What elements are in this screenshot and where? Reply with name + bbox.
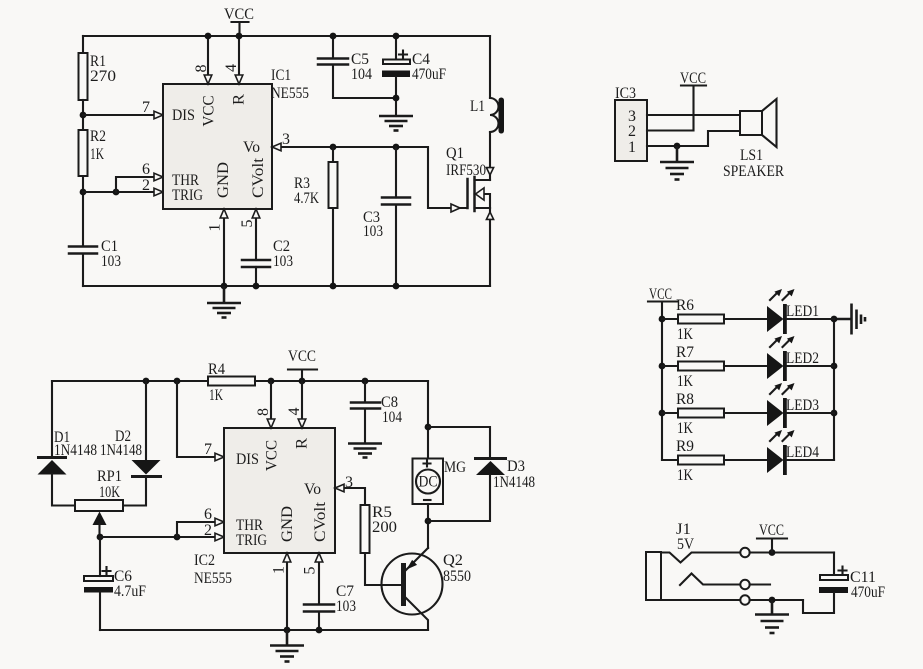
Q1 drain direction arrow bbox=[486, 168, 493, 175]
svg-text:6: 6 bbox=[142, 161, 150, 178]
wire VCC rail to L1 bbox=[489, 36, 491, 98]
wire C6 to bottom rail bbox=[99, 593, 101, 631]
svg-text:Q2: Q2 bbox=[443, 552, 463, 569]
LED4 emission arrow a bbox=[770, 430, 782, 441]
svg-text:TRIG: TRIG bbox=[172, 187, 203, 204]
pin arrow TRIG IC2 bbox=[215, 533, 224, 541]
diode LED2 triangle bbox=[767, 353, 784, 379]
motor MG circle bbox=[416, 470, 440, 494]
power symbol VCC top circuit bbox=[224, 6, 254, 36]
wire RP1 wiper stem bbox=[98, 524, 100, 537]
wire IC3 pin3 to speaker bbox=[647, 114, 740, 116]
svg-text:103: 103 bbox=[336, 598, 356, 615]
wire top node to D3 bbox=[428, 427, 490, 457]
pin arrow THR IC2 bbox=[215, 518, 224, 526]
svg-text:IC2: IC2 bbox=[194, 552, 215, 569]
pin arrow THR pin6 bbox=[154, 173, 163, 181]
wire wiper to TRIG run bbox=[100, 536, 223, 538]
svg-text:1K: 1K bbox=[90, 146, 105, 163]
svg-text:DIS: DIS bbox=[172, 107, 195, 124]
wire R9 to LED4 bbox=[724, 459, 767, 461]
junction C4 on rail bbox=[393, 33, 400, 40]
capacitor C4 bottom plate bbox=[382, 71, 410, 78]
capacitor C11 top plate bbox=[820, 575, 848, 580]
capacitor C2 bbox=[242, 260, 270, 267]
wire LED3 to right rail bbox=[787, 412, 834, 414]
svg-text:IRF530: IRF530 bbox=[446, 162, 486, 179]
junction node pin7 bbox=[80, 112, 87, 119]
power symbol VCC J1 bbox=[757, 522, 787, 552]
svg-text:R6: R6 bbox=[676, 297, 694, 314]
svg-text:IC3: IC3 bbox=[615, 85, 636, 102]
wire J1 tip contact bbox=[661, 553, 740, 563]
junction C7 ground rail bbox=[316, 627, 323, 634]
power symbol VCC bottom circuit bbox=[288, 348, 317, 381]
svg-text:R8: R8 bbox=[676, 391, 694, 408]
svg-text:4.7uF: 4.7uF bbox=[114, 583, 146, 600]
wire LED2 to right rail bbox=[787, 365, 834, 367]
wire LED1 to right rail bbox=[787, 318, 834, 320]
LED1 emission arrow a bbox=[770, 289, 782, 300]
svg-text:6: 6 bbox=[204, 506, 212, 523]
transistor Q2 emitter line bbox=[406, 548, 428, 570]
wire left rail to R1 bbox=[82, 36, 84, 53]
wire rail to R8 bbox=[662, 412, 678, 414]
junction LED row1 left bbox=[659, 316, 666, 323]
motor MG body bbox=[413, 459, 444, 505]
wire C5 stem bbox=[332, 36, 334, 58]
svg-text:5: 5 bbox=[302, 566, 319, 574]
wire pin 7 to DIS bbox=[83, 114, 162, 116]
connector IC3 box bbox=[615, 100, 647, 161]
transistor Q2 base bar bbox=[401, 563, 406, 606]
wire sleeve terminal to C11 return bbox=[750, 599, 803, 601]
svg-text:104: 104 bbox=[382, 409, 402, 426]
wire D1 to RP1 left bbox=[52, 474, 75, 506]
junction pin8 on rail bbox=[268, 378, 275, 385]
svg-text:VCC: VCC bbox=[201, 96, 218, 127]
wire R8 to LED3 bbox=[724, 412, 767, 414]
motor MG minus mark bbox=[424, 499, 431, 501]
wire pin 2 TRIG run bbox=[83, 191, 162, 193]
LED3 emission arrow b bbox=[783, 383, 795, 394]
svg-text:LED1: LED1 bbox=[786, 303, 819, 320]
wire C4 to ground bbox=[395, 77, 397, 116]
junction LED row1 right bbox=[831, 316, 838, 323]
IC2 NE555 box bbox=[224, 428, 335, 553]
diode LED1 triangle bbox=[767, 306, 784, 332]
pin arrow VCC pin8 bbox=[204, 75, 212, 84]
wire IC2 Vo to R5 bbox=[335, 488, 365, 505]
svg-text:VCC: VCC bbox=[224, 6, 254, 23]
wire D2 to RP1 right bbox=[123, 478, 146, 506]
wire IC3 pin2 to VCC bbox=[647, 86, 694, 131]
junction ground node J1 bbox=[769, 597, 776, 604]
capacitor C11 bottom plate bbox=[819, 587, 848, 593]
capacitor C4 top plate bbox=[383, 60, 410, 65]
svg-text:2: 2 bbox=[204, 522, 212, 539]
J1 tip terminal circle bbox=[740, 548, 749, 557]
wire tip terminal to C11 bbox=[750, 551, 834, 553]
ground symbol IC3 bbox=[660, 146, 694, 180]
resistor R3 bbox=[329, 162, 338, 208]
svg-text:R7: R7 bbox=[676, 344, 694, 361]
diode LED4 cathode bar bbox=[783, 445, 787, 475]
wire C8 to ground bbox=[364, 409, 366, 443]
diode LED4 triangle bbox=[767, 447, 784, 473]
resistor R4 bbox=[208, 377, 255, 386]
wire rail to R7 bbox=[662, 365, 678, 367]
svg-text:VCC: VCC bbox=[759, 522, 784, 539]
inductor L1 core bar bbox=[499, 98, 505, 134]
wire bottom ground rail bbox=[83, 285, 490, 287]
capacitor C1 bbox=[69, 247, 97, 254]
wire rail corner down to motor node bbox=[427, 381, 429, 459]
svg-text:1: 1 bbox=[271, 566, 288, 574]
svg-text:DIS: DIS bbox=[236, 451, 259, 468]
svg-text:5: 5 bbox=[239, 219, 256, 227]
svg-text:R4: R4 bbox=[208, 361, 225, 378]
svg-text:CVolt: CVolt bbox=[250, 157, 267, 198]
junction DIS branch on rail bbox=[174, 378, 181, 385]
wire IC2 pin 1 stem bbox=[286, 554, 288, 630]
ground symbol under C8 bbox=[348, 444, 382, 458]
pin arrow DIS pin7 bbox=[154, 111, 163, 119]
J1 sleeve terminal circle bbox=[740, 595, 749, 604]
junction motor D3 bottom node bbox=[425, 518, 432, 525]
svg-text:1: 1 bbox=[628, 139, 636, 156]
svg-text:470uF: 470uF bbox=[851, 584, 885, 601]
resistor R5 bbox=[361, 505, 370, 553]
wire R1 to R2 bbox=[82, 100, 84, 130]
wire C2 to ground rail bbox=[255, 267, 257, 286]
svg-text:3: 3 bbox=[345, 474, 353, 491]
svg-text:4: 4 bbox=[223, 64, 240, 72]
junction THR branch bottom bbox=[174, 534, 181, 541]
ground symbol under IC1 bbox=[207, 286, 241, 318]
wire C7 to ground rail bbox=[318, 612, 320, 630]
svg-text:5V: 5V bbox=[677, 536, 695, 553]
svg-text:103: 103 bbox=[273, 253, 293, 270]
junction R3 on Vo net bbox=[330, 144, 337, 151]
resistor R1 bbox=[79, 53, 88, 100]
Q1 source direction arrow bbox=[486, 212, 493, 219]
svg-text:LS1: LS1 bbox=[740, 147, 763, 164]
wire LED right rail bbox=[833, 319, 835, 460]
svg-text:IC1: IC1 bbox=[271, 67, 291, 84]
transistor Q2 collector line bbox=[406, 598, 428, 630]
potentiometer RP1 body bbox=[75, 500, 123, 511]
svg-text:2: 2 bbox=[142, 177, 150, 194]
wire C5 to C4 bottom bbox=[333, 65, 396, 98]
svg-text:TRIG: TRIG bbox=[236, 532, 267, 549]
capacitor C6 bottom plate bbox=[84, 587, 113, 593]
pin arrow GND pin1 bbox=[220, 209, 228, 218]
pin arrow R IC2 pin4 bbox=[298, 419, 306, 428]
wire bottom circuit VCC rail left bbox=[52, 380, 208, 382]
speaker LS1 cone bbox=[762, 99, 777, 147]
diode LED1 cathode bar bbox=[783, 304, 787, 334]
resistor R9 bbox=[678, 456, 724, 465]
LED3 emission arrow a bbox=[770, 383, 782, 394]
svg-text:GND: GND bbox=[279, 506, 296, 542]
svg-text:7: 7 bbox=[142, 99, 150, 116]
pin arrow Vo pin3 bbox=[272, 143, 281, 151]
svg-text:VCC: VCC bbox=[264, 440, 281, 471]
svg-text:270: 270 bbox=[90, 68, 116, 85]
svg-text:DC: DC bbox=[419, 474, 438, 491]
wire LED4 to right rail bbox=[787, 459, 834, 461]
transistor Q1 body diode arrow bbox=[476, 188, 485, 200]
diode LED3 cathode bar bbox=[783, 398, 787, 428]
svg-text:10K: 10K bbox=[99, 484, 121, 501]
svg-text:LED3: LED3 bbox=[786, 397, 819, 414]
svg-text:8: 8 bbox=[193, 64, 210, 72]
junction C3 on Vo net bbox=[393, 144, 400, 151]
wire R3 top stem bbox=[332, 147, 334, 162]
wire R5 to Q2 base bbox=[365, 553, 401, 585]
junction left rail trig node bbox=[80, 189, 87, 196]
svg-text:1K: 1K bbox=[677, 326, 694, 343]
svg-text:104: 104 bbox=[351, 66, 372, 83]
junction C5 on rail bbox=[330, 33, 337, 40]
svg-text:7: 7 bbox=[204, 441, 212, 458]
wire top VCC rail bbox=[83, 35, 490, 37]
power symbol VCC led block bbox=[648, 286, 677, 303]
resistor R7 bbox=[678, 362, 724, 371]
wire IC3 pin1 run bbox=[647, 131, 740, 146]
svg-text:L1: L1 bbox=[470, 98, 485, 115]
junction IC3 pin1 ground node bbox=[674, 143, 681, 150]
transistor Q1 body stub bbox=[475, 194, 491, 208]
diode D2 cathode bar bbox=[131, 475, 162, 478]
speaker LS1 box bbox=[740, 111, 762, 135]
diode D3 cathode bar bbox=[474, 457, 507, 460]
wire DIS branch pin7 bbox=[177, 381, 223, 457]
wire C8 stem bbox=[364, 381, 366, 402]
wire switch terminal stub bbox=[750, 583, 770, 585]
svg-text:NE555: NE555 bbox=[194, 570, 232, 587]
transistor Q2 circle bbox=[382, 554, 443, 615]
svg-text:8: 8 bbox=[255, 408, 272, 416]
resistor R8 bbox=[678, 409, 724, 418]
wire C1 to ground rail bbox=[82, 254, 84, 286]
diode D1 triangle bbox=[38, 460, 67, 475]
svg-text:NE555: NE555 bbox=[271, 85, 309, 102]
transistor Q2 emitter arrow bbox=[407, 560, 418, 570]
wire pin 1 stem bbox=[223, 210, 225, 286]
pin arrow DIS IC2 bbox=[215, 453, 224, 461]
capacitor C7 bbox=[304, 605, 334, 612]
J1 switch terminal circle bbox=[740, 580, 749, 589]
junction C3 on ground rail bbox=[393, 283, 400, 290]
junction VCC node J1 bbox=[769, 549, 776, 556]
resistor R6 bbox=[678, 315, 724, 324]
svg-text:4: 4 bbox=[286, 407, 303, 415]
wire rail down to D1 bbox=[51, 381, 53, 456]
capacitor C11 plus sign bbox=[839, 567, 847, 575]
wire R6 to LED1 bbox=[724, 318, 767, 320]
junction LED row2 right bbox=[831, 363, 838, 370]
diode LED2 cathode bar bbox=[783, 351, 787, 381]
capacitor C6 top plate bbox=[84, 576, 113, 581]
wire C3 top stem bbox=[395, 147, 397, 198]
wire bottom circuit VCC rail right bbox=[255, 380, 428, 382]
wire J1 sleeve contact bbox=[661, 599, 740, 601]
svg-text:R2: R2 bbox=[90, 128, 106, 145]
wire Q1 source to ground rail bbox=[489, 208, 491, 286]
wire pin 4 stem bbox=[238, 36, 240, 83]
svg-text:1K: 1K bbox=[209, 387, 224, 404]
capacitor C6 plus sign bbox=[103, 567, 111, 575]
pin arrow GND IC2 pin1 bbox=[283, 553, 291, 562]
svg-text:CVolt: CVolt bbox=[312, 501, 329, 542]
wire LED left rail bbox=[661, 302, 663, 461]
svg-text:3: 3 bbox=[282, 131, 290, 148]
svg-text:MG: MG bbox=[444, 459, 466, 476]
junction pin8 on rail bbox=[205, 33, 212, 40]
capacitor C3 bbox=[382, 198, 410, 205]
svg-text:1K: 1K bbox=[677, 467, 694, 484]
transistor Q1 channel bar bbox=[473, 177, 476, 211]
capacitor C4 plus sign bbox=[399, 51, 407, 59]
transistor Q1 source stub bbox=[475, 207, 491, 209]
junction C8 on rail bbox=[362, 378, 369, 385]
pin arrow Q1 gate bbox=[451, 204, 460, 212]
svg-text:GND: GND bbox=[215, 162, 232, 198]
wire THR jog pin6 bbox=[177, 522, 223, 537]
diode D2 triangle bbox=[132, 460, 161, 475]
junction D2 on rail bbox=[143, 378, 150, 385]
junction pin1 on ground rail bbox=[221, 283, 228, 290]
LED1 emission arrow b bbox=[783, 289, 795, 300]
capacitor C8 bbox=[351, 403, 380, 409]
svg-text:1K: 1K bbox=[677, 373, 694, 390]
diode D3 triangle bbox=[476, 461, 505, 475]
diode LED3 triangle bbox=[767, 400, 784, 426]
svg-text:200: 200 bbox=[372, 519, 397, 536]
svg-text:Q1: Q1 bbox=[446, 145, 464, 162]
ground symbol J1 bbox=[755, 600, 789, 633]
transistor Q1 gate bar bbox=[466, 179, 469, 208]
wire C11 top stem bbox=[833, 553, 835, 576]
junction IC2 pin1 ground rail bbox=[284, 627, 291, 634]
ground symbol LED rail rotated bbox=[834, 304, 865, 335]
wire bottom circuit ground rail bbox=[100, 629, 428, 631]
junction pin4 VCC on rail bbox=[236, 33, 243, 40]
svg-text:1N4148: 1N4148 bbox=[54, 442, 97, 459]
wire R2 to C1 bbox=[82, 176, 84, 246]
svg-text:1K: 1K bbox=[677, 420, 694, 437]
wire C4 stem bbox=[395, 36, 397, 59]
power symbol VCC speaker bbox=[680, 70, 706, 87]
svg-text:1: 1 bbox=[207, 224, 224, 232]
wire R3 to ground rail bbox=[332, 208, 334, 286]
svg-text:R: R bbox=[231, 93, 248, 105]
wire IC2 pin 5 stem bbox=[318, 554, 320, 604]
IC1 NE555 box bbox=[163, 84, 272, 209]
pin arrow CVolt IC2 pin5 bbox=[315, 553, 323, 562]
svg-text:103: 103 bbox=[363, 223, 383, 240]
motor MG plus mark bbox=[424, 461, 431, 467]
inductor L1 coil bbox=[490, 98, 499, 132]
svg-text:R9: R9 bbox=[676, 438, 694, 455]
connector J1 body bbox=[646, 552, 661, 600]
junction C2 on ground rail bbox=[253, 283, 260, 290]
pin arrow VCC IC2 pin8 bbox=[267, 419, 275, 428]
pin arrow R pin4 bbox=[235, 75, 243, 84]
junction motor D3 top node bbox=[425, 424, 432, 431]
svg-text:D3: D3 bbox=[507, 458, 525, 475]
transistor Q1 drain stub bbox=[475, 179, 491, 181]
wire C3 to ground rail bbox=[395, 205, 397, 286]
diode D1 cathode bar bbox=[37, 456, 67, 459]
junction THR branch bbox=[113, 189, 120, 196]
svg-text:SPEAKER: SPEAKER bbox=[723, 163, 785, 180]
wire pin 6 THR jog bbox=[116, 177, 162, 192]
junction pin4 VCC on rail bbox=[299, 378, 306, 385]
svg-text:R: R bbox=[294, 437, 311, 449]
junction LED row2 left bbox=[659, 363, 666, 370]
svg-text:4.7K: 4.7K bbox=[294, 190, 320, 207]
svg-text:LED2: LED2 bbox=[786, 350, 819, 367]
wire Vo output net pin3 bbox=[272, 147, 467, 208]
svg-text:Vo: Vo bbox=[304, 481, 321, 498]
wire D3 to bottom node bbox=[428, 475, 490, 521]
wire IC2 pin 4 stem bbox=[301, 381, 303, 427]
LED4 emission arrow b bbox=[783, 430, 795, 441]
junction LED row3 left bbox=[659, 410, 666, 417]
wire rail to R6 bbox=[662, 318, 678, 320]
pin arrow CVolt pin5 bbox=[252, 209, 260, 218]
svg-text:1N4148: 1N4148 bbox=[493, 474, 535, 491]
svg-text:103: 103 bbox=[101, 253, 121, 270]
svg-text:2: 2 bbox=[628, 123, 636, 140]
wire R7 to LED2 bbox=[724, 365, 767, 367]
junction LED row3 right bbox=[831, 410, 838, 417]
wire pin 8 stem bbox=[207, 36, 209, 83]
wire pin 5 stem upper bbox=[255, 210, 257, 260]
ground symbol under IC2 bbox=[270, 630, 304, 662]
wire Q1 drain to L1 bbox=[489, 132, 491, 180]
svg-text:8550: 8550 bbox=[443, 568, 471, 585]
pin arrow TRIG pin2 bbox=[154, 188, 163, 196]
pin arrow Vo IC2 pin3 bbox=[335, 484, 344, 492]
ground symbol under C4 bbox=[379, 116, 413, 131]
wire wiper to C6 bbox=[99, 537, 101, 576]
wire J1 switch contact bbox=[680, 574, 740, 586]
svg-text:VCC: VCC bbox=[288, 348, 316, 365]
wire rail down to D2 bbox=[145, 381, 147, 460]
LED2 emission arrow b bbox=[783, 336, 795, 347]
capacitor C5 bbox=[318, 59, 348, 65]
RP1 wiper arrow bbox=[93, 512, 107, 526]
LED2 emission arrow a bbox=[770, 336, 782, 347]
junction wiper node bbox=[97, 534, 104, 541]
junction R3 on ground rail bbox=[330, 283, 337, 290]
svg-text:470uF: 470uF bbox=[412, 66, 446, 83]
resistor R2 bbox=[79, 130, 88, 176]
wire C11 bottom return bbox=[803, 593, 834, 613]
wire motor to emitter node bbox=[427, 504, 429, 548]
svg-text:LED4: LED4 bbox=[786, 444, 819, 461]
svg-text:Vo: Vo bbox=[243, 139, 260, 156]
svg-text:1N4148: 1N4148 bbox=[100, 442, 142, 459]
wire IC2 pin 8 stem bbox=[270, 381, 272, 427]
junction C4 C5 ground node bbox=[393, 95, 400, 102]
svg-text:RP1: RP1 bbox=[97, 468, 122, 485]
wire rail to R9 bbox=[662, 459, 678, 461]
